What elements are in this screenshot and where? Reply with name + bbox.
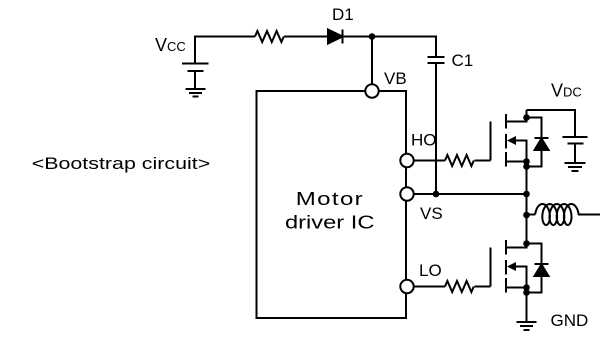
wire: Vcc rail to resistor (195, 37, 255, 64)
body diode D2 (Q1) (527, 118, 549, 167)
transistor Q2 gate bar (490, 248, 492, 287)
svg-text:GND: GND (551, 311, 589, 330)
resistor R1 (bootstrap series) (255, 31, 284, 42)
junction: Q2 drain node (523, 240, 530, 247)
wire: VS net (414, 193, 527, 195)
pin LO (400, 280, 413, 293)
label VS (420, 204, 443, 223)
resistor R3 (LO gate) (445, 281, 474, 292)
wire: inductor out (578, 214, 600, 216)
inductor L1 (535, 204, 578, 225)
wire: gate resistor to Q1 gate (475, 160, 491, 162)
svg-text:driver IC: driver IC (285, 212, 374, 233)
junction: C1/VS (433, 191, 440, 198)
net label GND (551, 311, 589, 330)
transistor Q1 source stub (506, 161, 527, 163)
junction: Q2 source node (523, 284, 530, 296)
battery B2 (VDC source) (563, 137, 588, 163)
resistor R2 (HO gate) (445, 155, 474, 166)
wire: Q2 source to ground (526, 288, 528, 323)
wire: Q1 source to VS/coil (526, 162, 528, 216)
net label VDC (551, 81, 582, 101)
wire: gate resistor to Q2 gate (475, 286, 491, 288)
wire: LO to gate resistor (414, 286, 445, 288)
pin VS (400, 187, 413, 200)
wire: node to C1 (372, 37, 436, 58)
ground (VDC) (565, 163, 586, 171)
junction: coil node (523, 212, 530, 219)
net label Vcc (155, 35, 186, 55)
junction: VB node (369, 33, 376, 40)
svg-text:VDC: VDC (551, 81, 582, 101)
pin VB (365, 84, 378, 97)
svg-text:Motor: Motor (296, 189, 364, 210)
svg-text:HO: HO (411, 131, 437, 150)
ground (Vcc) (186, 89, 206, 97)
label D1 (332, 5, 354, 24)
svg-text:D1: D1 (332, 5, 354, 24)
label Motor driver IC (285, 189, 374, 233)
svg-text:VB: VB (384, 69, 407, 88)
body diode D3 (Q2) (527, 244, 549, 293)
label C1 (452, 51, 474, 70)
transistor Q2 drain stub (506, 244, 527, 248)
transistor Q2 channel (505, 240, 507, 293)
ground (output) (517, 322, 537, 330)
wire: diode to node (343, 36, 373, 38)
transistor Q1 channel (505, 114, 507, 167)
transistor Q1 gate bar (490, 122, 492, 161)
pin HO (400, 154, 413, 167)
svg-text:C1: C1 (452, 51, 474, 70)
junction: Q1 source node (523, 158, 530, 170)
wire: C1 to VS net (435, 63, 437, 194)
wire: resistor to diode (284, 36, 328, 38)
transistor Q1 body arrow (507, 136, 527, 162)
wire: HO to gate resistor (414, 160, 445, 162)
label VB (384, 69, 407, 88)
junction: Q1 drain node (523, 114, 530, 121)
wire: to inductor (527, 214, 536, 216)
wire: Q1 drain to VDC (527, 110, 576, 137)
transistor Q2 source stub (506, 287, 527, 289)
wire: coil node to Q2 drain (526, 215, 528, 244)
caption Bootstrap circuit (32, 155, 211, 173)
junction: VS node (523, 191, 530, 198)
label LO (419, 261, 442, 280)
label HO (411, 131, 437, 150)
svg-text:LO: LO (419, 261, 442, 280)
IC U1 Motor driver (257, 91, 407, 318)
svg-text:<Bootstrap circuit>: <Bootstrap circuit> (32, 155, 211, 173)
diode D1 (328, 30, 343, 44)
svg-text:VCC: VCC (155, 35, 186, 55)
battery B1 (Vcc source) (182, 64, 209, 90)
capacitor C1 (428, 57, 445, 63)
wire: node to VB pin (371, 37, 373, 85)
transistor Q1 drain stub (506, 110, 527, 122)
svg-text:VS: VS (420, 204, 443, 223)
transistor Q2 body arrow (507, 262, 527, 288)
